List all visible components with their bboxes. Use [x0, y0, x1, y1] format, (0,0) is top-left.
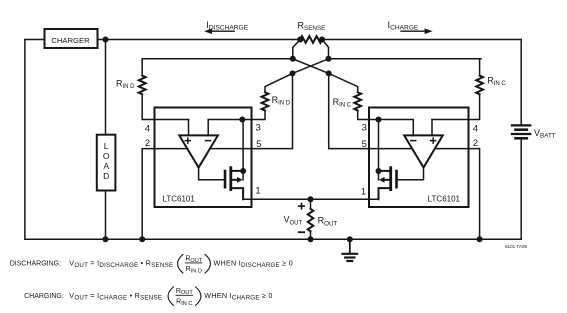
wire cross diagonal node B to lower-left node [293, 59, 329, 74]
svg-text:LTC6101: LTC6101 [163, 195, 196, 204]
wire bottom ground rail [25, 238, 521, 240]
wire LOAD bottom to ground rail [105, 191, 107, 240]
wire U2 pin2 supply [435, 149, 480, 240]
wire U2 -input junction down to drain [378, 120, 380, 180]
svg-text:CHARGING:: CHARGING: [24, 293, 64, 300]
wire U2 +input vertical [431, 120, 433, 136]
resistor RIN C (inner) [354, 92, 361, 110]
wire U1 pin5 supply to upper node [210, 73, 293, 148]
svg-text:O: O [103, 151, 110, 161]
label + input U1 [185, 138, 190, 143]
wire CHARGER junction down to LOAD [105, 40, 107, 135]
svg-text:2: 2 [473, 137, 478, 148]
transistor M2 body arrow [385, 179, 389, 181]
op-amp triangle U2 [404, 135, 443, 167]
op-amp box U2 LTC6101 (right) [369, 108, 469, 208]
svg-text:D: D [103, 171, 109, 181]
wire U2 pin5 supply to upper node [329, 73, 412, 148]
svg-text:6101 TA05: 6101 TA05 [505, 244, 527, 249]
wire U2 -input to pin3 junction [379, 120, 414, 136]
ground symbol [349, 239, 351, 253]
label - VOUT polarity [299, 231, 304, 233]
wire second rail right (node B to RIN C) [329, 58, 482, 60]
svg-text:DISCHARGING:: DISCHARGING: [10, 261, 61, 268]
svg-text:1: 1 [255, 185, 260, 196]
transistor M2 gate bar [395, 171, 398, 187]
wire second rail left (node A to RIN D) [142, 58, 293, 60]
svg-text:5: 5 [362, 138, 367, 149]
transistor M1 body arrow [232, 179, 236, 181]
wire lower-right node to inner RIN C [329, 73, 358, 92]
arrow ICHARGE (points right) [401, 30, 426, 32]
label + input U2 [431, 138, 436, 143]
op-amp box U1 LTC6101 (left) [155, 108, 252, 208]
transistor M2 source stub [379, 188, 390, 199]
transistor M1 drain stub [232, 170, 243, 172]
svg-text:3: 3 [362, 121, 367, 132]
resistor RIN C (far right) [479, 59, 481, 76]
op-amp triangle U1 [179, 135, 218, 167]
battery VBATT [512, 124, 530, 126]
arrow IDISCHARGE (points left) [211, 30, 234, 32]
label - input U2 [411, 140, 416, 142]
svg-text:L: L [104, 141, 109, 151]
wire RSENSE left drop to node A [293, 40, 300, 59]
wire U1 pin2 supply [142, 149, 187, 240]
label - input U1 [206, 140, 211, 142]
transistor M2 channel bar [389, 168, 392, 190]
svg-text:4: 4 [473, 122, 478, 133]
wire pin1 output rail [243, 198, 378, 200]
wire left edge vertical [24, 40, 26, 240]
equation 1 parentheses [178, 254, 184, 273]
resistor RIN D (far left) [141, 59, 143, 76]
resistor RIN D (inner) [262, 92, 269, 110]
wire lower-left node to inner RIN D [265, 73, 293, 92]
resistor RSENSE [300, 36, 322, 43]
wire U1 -input to pin3 junction [208, 120, 242, 136]
label LOAD (stacked) [103, 141, 110, 181]
label + VOUT polarity [299, 203, 304, 208]
svg-text:2: 2 [145, 137, 150, 148]
wire top rail: RSENSE right to VBATT [322, 39, 521, 41]
transistor M1 gate bar [224, 171, 227, 187]
wire top rail: CHARGER to RSENSE left [97, 39, 300, 41]
wire CHARGER left lead [25, 39, 45, 41]
svg-text:5: 5 [256, 138, 261, 149]
wire RSENSE right drop to node B [322, 40, 328, 59]
svg-text:CHARGER: CHARGER [51, 36, 90, 45]
svg-text:LTC6101: LTC6101 [428, 195, 461, 204]
equation 2 parentheses [168, 287, 174, 306]
wire VBATT rail lower [520, 138, 522, 239]
wire U1 -input junction down to drain [242, 120, 244, 180]
wire VBATT rail upper [520, 40, 522, 126]
resistor ROUT [310, 199, 312, 209]
svg-text:4: 4 [145, 122, 150, 133]
wire U1 +input vertical [188, 120, 190, 136]
transistor M2 drain stub [379, 170, 390, 172]
load box [97, 135, 116, 191]
svg-text:A: A [103, 161, 109, 171]
wire cross diagonal node A to lower-right node [293, 59, 329, 74]
wire U1 output to gate [199, 168, 224, 180]
svg-text:1: 1 [361, 186, 366, 197]
wire U2 output to gate [398, 168, 424, 180]
transistor M1 channel bar [229, 168, 232, 190]
charger box [45, 29, 98, 48]
svg-text:3: 3 [256, 121, 261, 132]
transistor M1 source stub [232, 188, 243, 199]
